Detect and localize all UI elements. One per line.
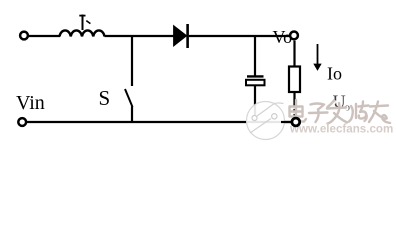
svg-text:www.elecfans.com: www.elecfans.com bbox=[289, 123, 393, 136]
svg-text:Vin: Vin bbox=[16, 92, 45, 114]
svg-text:S: S bbox=[99, 86, 111, 110]
svg-text:Vo: Vo bbox=[273, 27, 293, 47]
svg-text:Io: Io bbox=[327, 64, 342, 84]
